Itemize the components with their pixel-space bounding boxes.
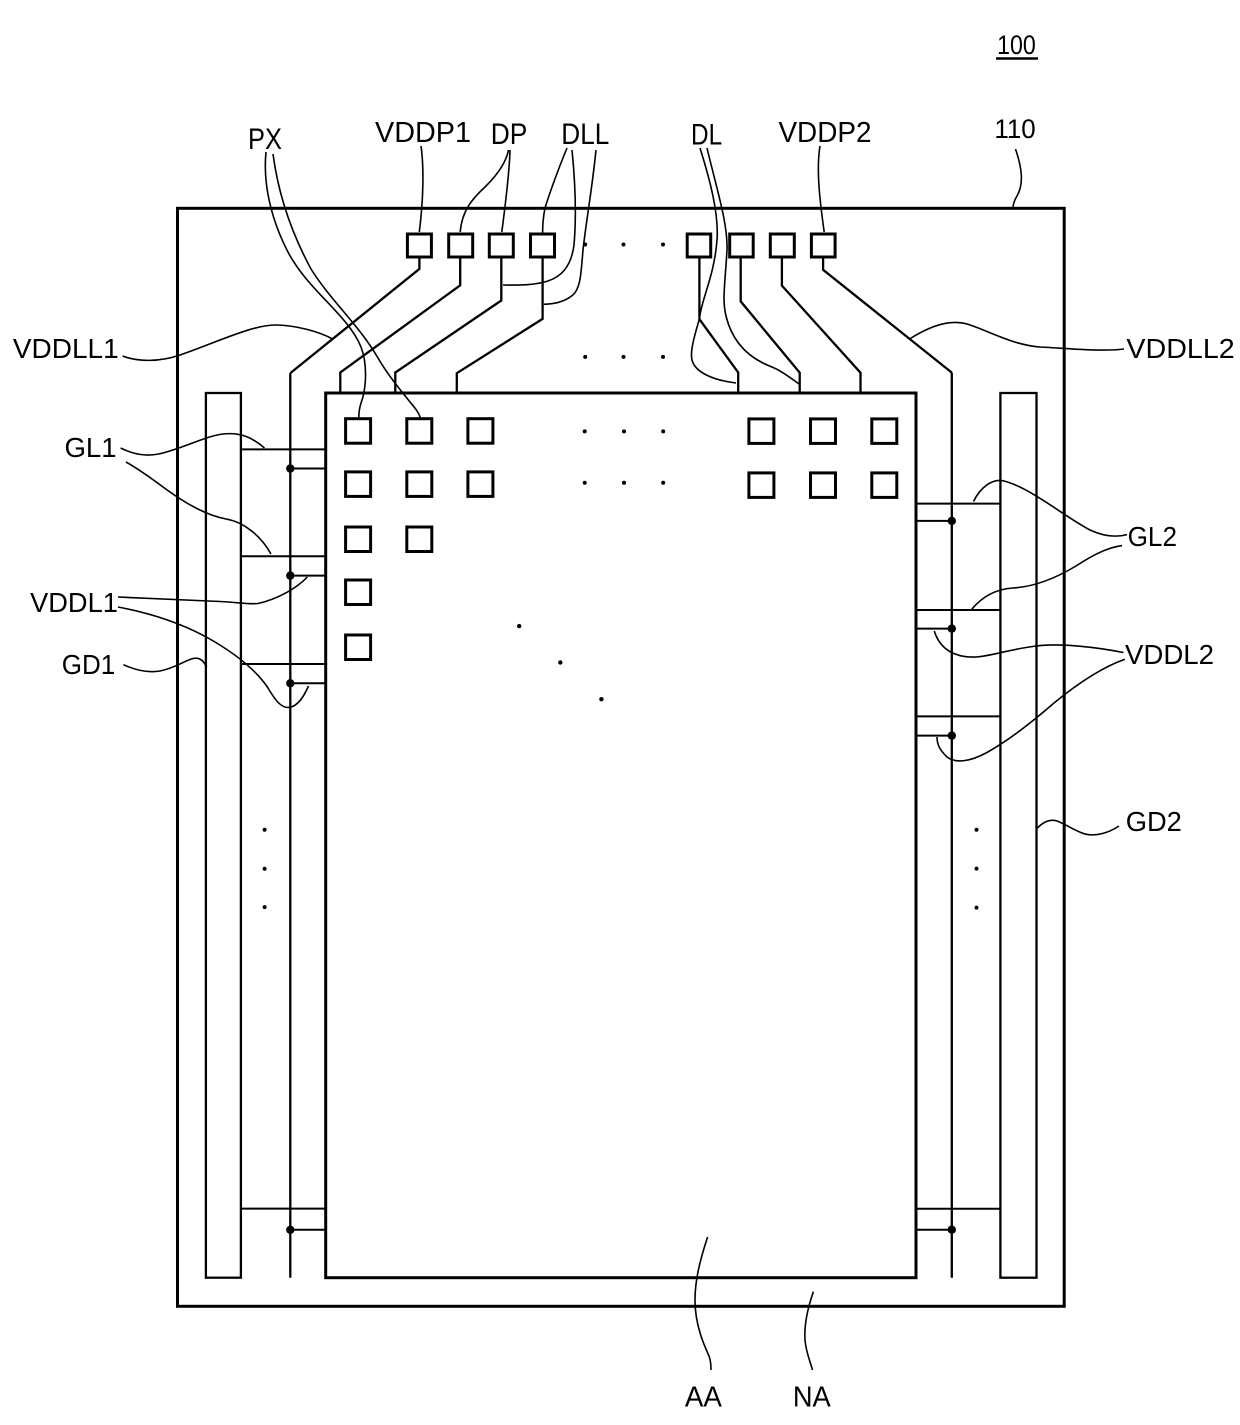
ellipsis dots top pads row bbox=[583, 243, 665, 359]
svg-text:GL2: GL2 bbox=[1128, 521, 1177, 552]
data pad P3 bbox=[489, 234, 513, 257]
gate line GL2 row1 right bbox=[916, 503, 1000, 505]
leader AA to active area bbox=[695, 1237, 711, 1370]
wire W8 VDDP2 pad to VDDL2 bbox=[823, 257, 952, 373]
pixel r3c2 bbox=[407, 527, 432, 552]
pixel r4c1 bbox=[346, 580, 371, 605]
junction dot row2 right bbox=[948, 624, 956, 632]
power line VDDL2 bbox=[951, 373, 953, 1278]
svg-text:GD2: GD2 bbox=[1126, 806, 1182, 837]
leader GL1 to gate line row2 left bbox=[126, 462, 271, 554]
gate line row2 right bbox=[916, 609, 1000, 611]
gate driver GD1 bar bbox=[206, 393, 241, 1278]
VDD tap row3 left bbox=[290, 682, 325, 684]
junction dot row1 left bbox=[286, 464, 294, 472]
VDD tap row1 left bbox=[290, 468, 325, 470]
leader line 110 bbox=[1013, 149, 1021, 208]
VDD tap row4 right bbox=[916, 1229, 952, 1231]
leader VDDL1 to tap row2 left bbox=[118, 577, 307, 604]
svg-text:VDDL1: VDDL1 bbox=[30, 587, 118, 618]
pixel r1c6 bbox=[872, 419, 897, 444]
leader VDDP2 to pad P8 bbox=[818, 146, 824, 232]
svg-text:DP: DP bbox=[491, 118, 528, 151]
junction dot row3 right bbox=[948, 731, 956, 739]
pad VDDP2 (P8) bbox=[811, 234, 835, 257]
wire W6 data line DL bbox=[741, 257, 800, 393]
gate line row3 right bbox=[916, 715, 1000, 717]
wire W4 data link DLL bbox=[457, 257, 543, 393]
data pad P2 bbox=[449, 234, 473, 257]
active area AA rect bbox=[326, 393, 916, 1278]
gate line row2 left bbox=[241, 555, 326, 557]
pixel r1c3 bbox=[468, 419, 493, 444]
gate line row4 right bbox=[916, 1208, 1000, 1210]
gate driver GD2 bar bbox=[1000, 393, 1036, 1278]
leader VDDL2 to tap row3 right bbox=[937, 659, 1125, 761]
pixel r1c1 bbox=[346, 419, 371, 444]
pixel r1c5 bbox=[811, 419, 836, 444]
VDD tap row4 left bbox=[290, 1229, 325, 1231]
gate line row4 left bbox=[241, 1208, 326, 1210]
wire W1 VDDP1 pad to VDDL1 bbox=[290, 257, 419, 373]
leader PX to pixel r1c1 bbox=[265, 152, 365, 418]
gate line GL1 row1 left bbox=[241, 448, 326, 450]
pixel r2c3 bbox=[468, 472, 493, 497]
junction dot row4 right bbox=[948, 1226, 956, 1234]
data pad P6 bbox=[730, 234, 754, 257]
data pad P4 bbox=[531, 234, 555, 257]
leader VDDL2 to tap row2 right bbox=[934, 631, 1123, 657]
leader PX to pixel r1c2 bbox=[273, 154, 420, 418]
VDD tap row3 right bbox=[916, 735, 952, 737]
svg-text:GL1: GL1 bbox=[64, 432, 116, 463]
pixel r2c5 bbox=[811, 473, 836, 498]
leader DLL to pad P4 bbox=[543, 148, 567, 233]
svg-text:VDDP2: VDDP2 bbox=[778, 117, 871, 149]
pixel r2c2 bbox=[407, 472, 432, 497]
ellipsis dots diagonal in AA bbox=[517, 624, 604, 702]
wire W5 data line DL bbox=[699, 257, 738, 393]
leader DLL to wire W4 bbox=[544, 150, 596, 304]
junction dot row3 left bbox=[286, 679, 294, 687]
substrate 110 outer rect bbox=[178, 208, 1065, 1306]
leader GL1 to gate line row1 left bbox=[121, 434, 265, 455]
wire W7 data line bbox=[782, 257, 861, 393]
leader DP to pad P2 bbox=[460, 150, 508, 232]
VDD tap row2 right bbox=[916, 628, 952, 630]
svg-text:100: 100 bbox=[997, 30, 1036, 60]
ellipsis dots left margin bbox=[263, 828, 267, 909]
ellipsis dots pixel rows bbox=[583, 429, 666, 484]
reference numeral 100 bbox=[996, 30, 1038, 60]
wire W2 data link DLL bbox=[340, 257, 460, 393]
leader VDDL1 to tap row3 left bbox=[118, 607, 309, 708]
svg-text:110: 110 bbox=[994, 114, 1035, 144]
pixel r2c6 bbox=[872, 473, 897, 498]
pixel r1c4 bbox=[749, 419, 774, 444]
pixel PX squares right block bbox=[749, 419, 897, 498]
junction dot row2 left bbox=[286, 571, 294, 579]
svg-text:GD1: GD1 bbox=[62, 649, 116, 680]
gate line row3 left bbox=[241, 663, 326, 665]
leader GD1 to GD1 bar bbox=[123, 658, 206, 671]
svg-text:NA: NA bbox=[793, 1382, 832, 1414]
leader DL to wire W5 bbox=[691, 148, 736, 383]
junction dot row4 left bbox=[286, 1226, 294, 1234]
pad VDDP1 (P1) bbox=[407, 234, 431, 257]
data pad P5 bbox=[687, 234, 711, 257]
leader NA to border area bbox=[805, 1292, 814, 1370]
leader GD2 to GD2 bar bbox=[1037, 820, 1119, 834]
leader VDDP1 to pad P1 bbox=[419, 146, 423, 232]
svg-text:VDDLL2: VDDLL2 bbox=[1126, 333, 1234, 364]
pixel PX squares left block bbox=[346, 419, 493, 660]
leader DL to wire W6 bbox=[707, 148, 799, 384]
data pad P7 bbox=[770, 234, 794, 257]
pixel r3c1 bbox=[346, 527, 371, 552]
leader GL2 to gate line row2 right bbox=[972, 546, 1122, 610]
VDD tap row1 right bbox=[916, 520, 952, 522]
junction dot row1 right bbox=[948, 517, 956, 525]
leader DLL to wire W3 bbox=[503, 150, 575, 285]
leader DP to pad P3 bbox=[502, 150, 510, 232]
svg-text:VDDLL1: VDDLL1 bbox=[13, 333, 119, 364]
svg-text:VDDP1: VDDP1 bbox=[375, 117, 471, 149]
pixel r1c2 bbox=[407, 419, 432, 444]
leader VDDLL2 to wire W8 bbox=[910, 322, 1125, 350]
leader VDDLL1 to wire W1 bbox=[123, 325, 333, 360]
svg-text:PX: PX bbox=[248, 123, 282, 156]
svg-text:AA: AA bbox=[685, 1382, 723, 1414]
svg-text:DLL: DLL bbox=[561, 118, 609, 151]
wire W3 data link DLL bbox=[395, 257, 501, 393]
pixel r2c4 bbox=[749, 473, 774, 498]
pixel r5c1 bbox=[346, 635, 371, 660]
pixel r2c1 bbox=[346, 472, 371, 497]
VDD tap row2 left bbox=[290, 575, 325, 577]
power line VDDL1 bbox=[289, 373, 291, 1278]
svg-text:DL: DL bbox=[691, 119, 722, 152]
leader GL2 to gate line row1 right bbox=[974, 480, 1128, 536]
svg-text:VDDL2: VDDL2 bbox=[1125, 639, 1214, 670]
ellipsis dots right margin bbox=[975, 828, 979, 910]
